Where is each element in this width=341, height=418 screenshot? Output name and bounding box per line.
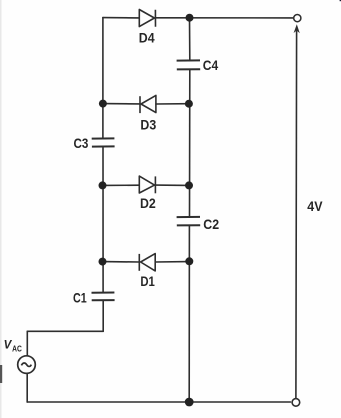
wire left rail middle (102, 147, 104, 292)
svg-text:D2: D2 (140, 195, 156, 211)
wire source top lead (26, 331, 28, 355)
arrowhead up on 4V line (294, 24, 300, 33)
diode D3 (140, 95, 156, 113)
wire bottom-left horizontal (27, 330, 103, 332)
wire D2 left lead (103, 184, 140, 186)
wire 4V measurement line (295, 30, 298, 398)
wire middle rail upper (189, 18, 191, 60)
svg-text:D1: D1 (140, 273, 155, 289)
terminal top right (294, 15, 301, 22)
svg-text:D3: D3 (140, 116, 156, 132)
diode D1 (139, 254, 155, 271)
wire middle rail mid (189, 70, 191, 216)
node D3 right (185, 100, 193, 108)
svg-text:C4: C4 (203, 57, 219, 73)
node bottom junction (185, 398, 194, 407)
capacitor C2 (177, 217, 201, 226)
svg-text:C2: C2 (203, 216, 219, 232)
svg-text:C1: C1 (73, 289, 87, 305)
node D3 left (99, 100, 107, 108)
node D2 left (99, 181, 107, 189)
node D2 right (185, 181, 193, 189)
wire left rail upper (102, 18, 104, 139)
svg-text:AC: AC (12, 345, 22, 354)
svg-text:D4: D4 (139, 29, 155, 45)
AC source V_AC (18, 356, 36, 374)
wire D3 left lead (103, 103, 140, 105)
node D1 left (99, 258, 107, 266)
svg-text:4V: 4V (307, 198, 323, 214)
wire D1 right lead (155, 261, 189, 263)
capacitor C4 (177, 60, 201, 69)
capacitor C1 (92, 293, 115, 301)
capacitor C3 (92, 138, 115, 146)
node junction top (186, 14, 194, 22)
wire middle rail lower (188, 226, 190, 402)
wire bottom rail (27, 401, 290, 403)
wire top right segment (156, 17, 294, 19)
wire source bottom lead (26, 374, 28, 402)
terminal bottom right (292, 399, 300, 407)
diode D2 (139, 176, 155, 193)
wire D2 right lead (155, 184, 189, 186)
wire D1 left lead (103, 261, 140, 263)
wire D3 right lead (156, 103, 189, 105)
diode D4 (139, 10, 155, 27)
wire left rail lower (102, 301, 104, 332)
svg-text:C3: C3 (74, 135, 89, 151)
wire top left segment (103, 17, 139, 19)
node D1 right (185, 257, 193, 265)
